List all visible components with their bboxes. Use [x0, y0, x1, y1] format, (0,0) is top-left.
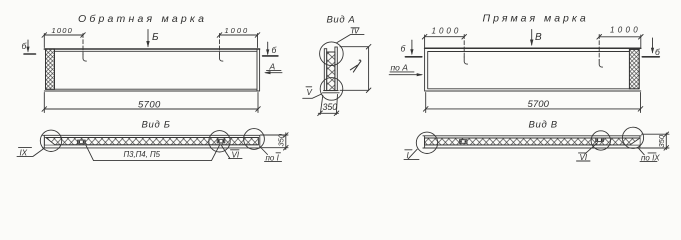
node label IX (plan bottom-left)	[19, 147, 32, 149]
left bevel of plan bar	[45, 138, 55, 145]
svg-text:350: 350	[323, 102, 338, 112]
svg-text:по I: по I	[266, 154, 280, 163]
svg-text:350: 350	[657, 134, 666, 147]
plan bar (Вид В)	[423, 136, 641, 148]
svg-text:по А: по А	[391, 63, 409, 73]
detail circle (Вид В left)	[416, 132, 437, 153]
node label по IX (Вид В right end)	[638, 147, 645, 154]
dim 1000 right (right panel)	[599, 35, 641, 48]
svg-text:П3,П4, П5: П3,П4, П5	[124, 150, 161, 159]
svg-text:Вид А: Вид А	[327, 14, 356, 25]
embedded plate (Вид В right)	[596, 138, 604, 142]
dim 1000 right	[220, 34, 258, 48]
panel outline (elevation, прямая марка)	[425, 47, 641, 49]
column bottom caps	[323, 91, 340, 93]
leader + label IV	[337, 35, 364, 43]
svg-text:Вид Б: Вид Б	[142, 119, 171, 130]
section line в right (dashed with hook)	[598, 35, 600, 61]
dim h (column height, right)	[340, 47, 369, 91]
end face hatch strip (right)	[629, 49, 639, 88]
svg-text:5700: 5700	[138, 99, 161, 110]
svg-text:1000: 1000	[225, 26, 250, 35]
svg-text:Обратная марка: Обратная марка	[78, 13, 207, 25]
svg-text:Вид В: Вид В	[529, 120, 558, 131]
dim 1000 left	[44, 34, 83, 48]
svg-text:В: В	[535, 32, 542, 43]
node label VI (Вид В)	[579, 152, 587, 154]
column left rail	[324, 49, 326, 91]
svg-text:VI: VI	[232, 151, 240, 160]
node label I (Вид В bottom-left)	[405, 149, 412, 151]
dim 5700 (left panel)	[44, 93, 258, 113]
dim 5700 (right panel)	[426, 93, 641, 113]
detail circle (plan mid-right)	[209, 131, 230, 152]
svg-text:1000: 1000	[52, 26, 74, 35]
dim 350 (plan right, vertical)	[261, 133, 289, 150]
arrow V top middle	[531, 30, 533, 46]
plan bar (Вид Б)	[43, 135, 260, 148]
label V	[306, 86, 312, 88]
svg-text:5700: 5700	[528, 99, 550, 110]
end face hatch strip (left)	[46, 49, 55, 89]
detail circle V (bottom node)	[320, 78, 343, 101]
panel outline (elevation, обратная марка)	[44, 48, 259, 50]
svg-text:V: V	[307, 88, 313, 97]
svg-text:Б: Б	[152, 32, 159, 43]
section mark b (far right)	[652, 38, 654, 53]
section line b right (dashed with hook)	[219, 34, 221, 55]
section line b left (dashed with hook)	[82, 34, 84, 55]
detail circle (Вид В right end)	[622, 127, 643, 148]
svg-text:IV: IV	[352, 27, 360, 36]
section mark b (right side of panel)	[267, 42, 269, 54]
leader line П3,П4,П5	[86, 145, 220, 160]
node label по I (plan right end)	[260, 147, 268, 155]
detail circle (Вид В mid-right)	[591, 131, 610, 150]
detail circle (plan left)	[40, 130, 61, 151]
embedded plate left (П3)	[78, 140, 86, 144]
right bevel of plan bar	[630, 138, 640, 145]
svg-text:Прямая марка: Прямая марка	[483, 13, 589, 25]
svg-text:1000: 1000	[432, 27, 462, 36]
column right rail	[335, 47, 337, 91]
dim 1000 left (right panel)	[425, 35, 465, 48]
dim 350 (Вид В right, vertical)	[642, 133, 670, 150]
dim 350 (column bottom)	[318, 95, 338, 115]
section line в left (dashed with hook)	[463, 35, 465, 58]
embedded plate (Вид В left-mid)	[459, 140, 467, 144]
detail circle IV (top node)	[320, 42, 344, 66]
column lattice hatch	[327, 52, 335, 91]
svg-text:1000: 1000	[610, 26, 641, 35]
detail circle (plan right end)	[244, 129, 265, 150]
embedded plate right (П4)	[217, 139, 225, 143]
svg-text:350: 350	[277, 133, 286, 146]
arrow B top middle	[147, 30, 149, 47]
node label VI (plan right)	[231, 149, 240, 151]
